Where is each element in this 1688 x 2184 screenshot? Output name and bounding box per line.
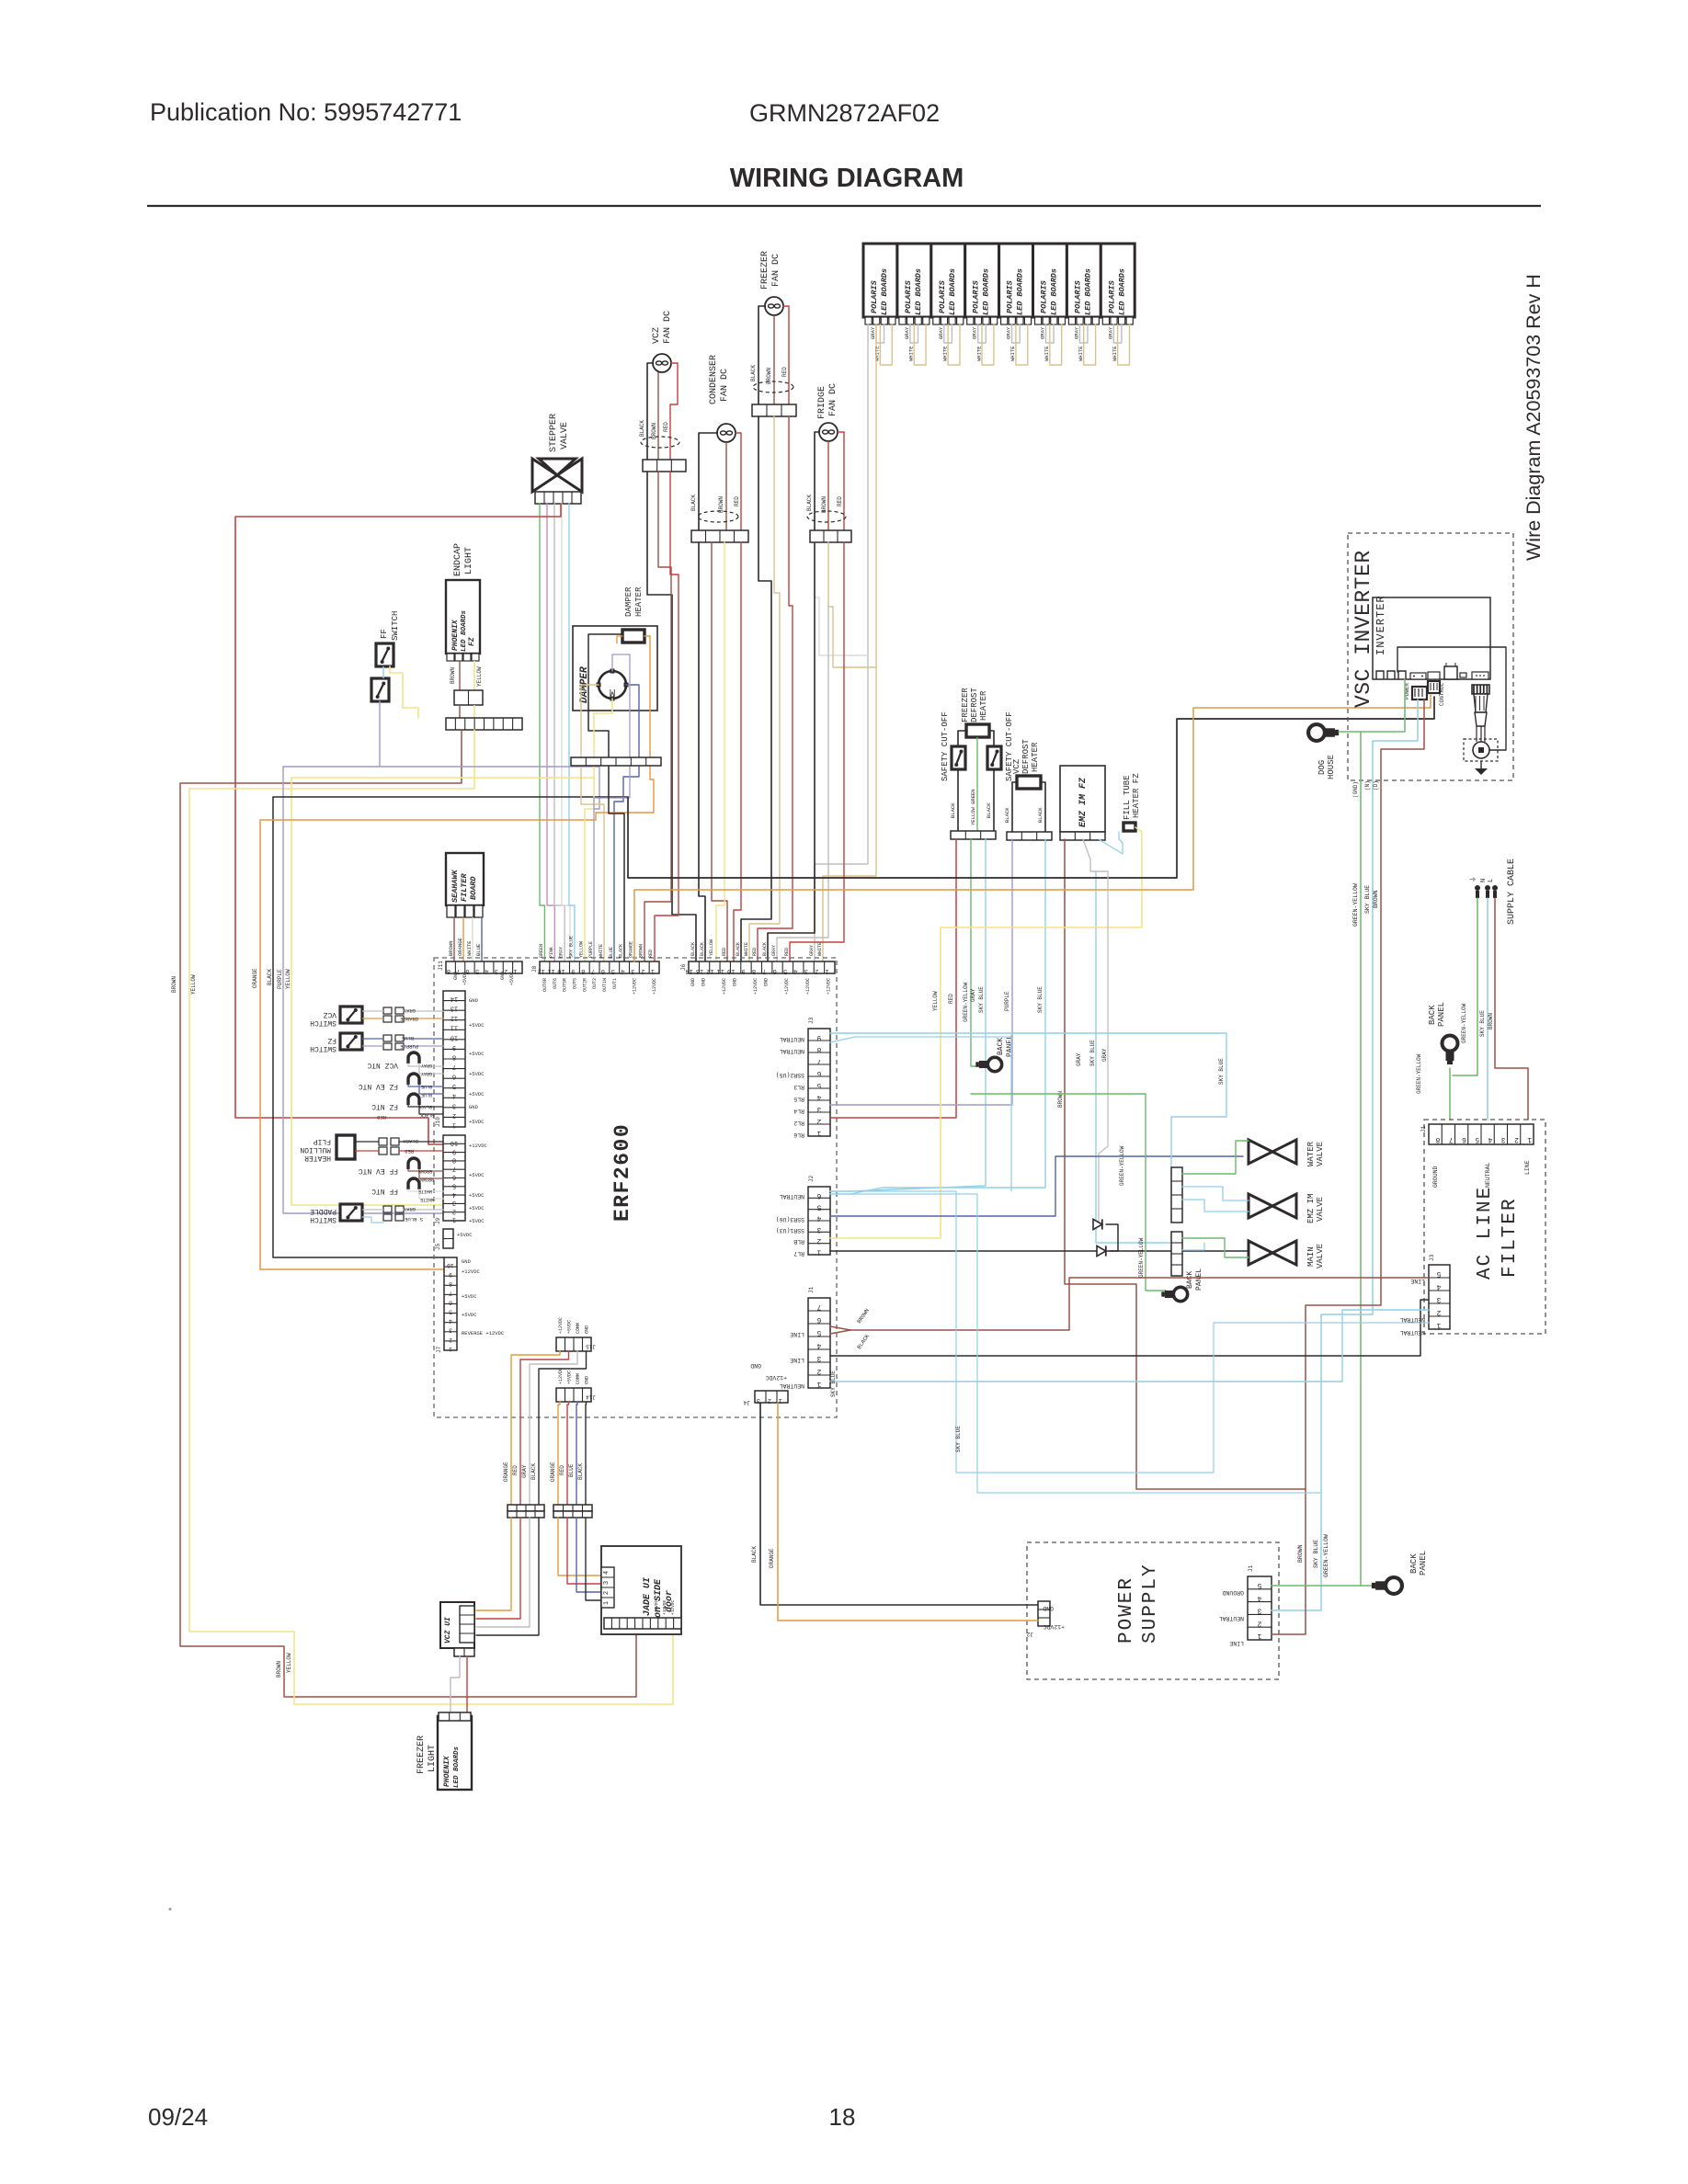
compressor motor <box>1464 739 1498 761</box>
svg-text:BROWN: BROWN <box>821 496 827 513</box>
svg-text:LINE: LINE <box>1410 1278 1425 1284</box>
svg-text:GRAY: GRAY <box>1073 326 1079 339</box>
svg-text:WHITE: WHITE <box>466 940 473 956</box>
svg-text:+5VDC: +5VDC <box>567 1320 573 1334</box>
svg-text:LINE: LINE <box>790 1331 804 1337</box>
svg-text:MAIN: MAIN <box>1306 1246 1316 1267</box>
svg-text:3: 3 <box>816 1354 821 1362</box>
svg-text:LED BOARDs: LED BOARDs <box>461 609 468 652</box>
svg-text:VCZ: VCZ <box>323 1010 336 1018</box>
svg-text:7: 7 <box>449 1290 452 1296</box>
polaris led board 5 <box>999 244 1033 317</box>
svg-text:2: 2 <box>603 1591 610 1595</box>
svg-text:FILTER: FILTER <box>1500 1197 1521 1278</box>
svg-text:PURPLE: PURPLE <box>277 969 283 989</box>
svg-text:NEUTRAL: NEUTRAL <box>780 1193 804 1200</box>
svg-text:BROWN: BROWN <box>418 1168 432 1174</box>
svg-text:OUT5: OUT5 <box>572 978 577 989</box>
connector J7 <box>444 1257 457 1350</box>
connector J6 <box>689 961 835 973</box>
svg-text:1: 1 <box>825 967 828 974</box>
connector J11 <box>446 961 522 973</box>
svg-text:FAN DC: FAN DC <box>828 383 838 416</box>
svg-text:J15: J15 <box>586 1343 596 1349</box>
condenser fan connector <box>691 530 748 542</box>
svg-text:GRAY: GRAY <box>403 1206 416 1212</box>
svg-text:+12VDC: +12VDC <box>827 978 832 995</box>
svg-text:WHITE: WHITE <box>941 346 948 361</box>
svg-text:+12VDC: +12VDC <box>784 978 790 995</box>
svg-text:2: 2 <box>816 1367 821 1375</box>
svg-text:BLACK: BLACK <box>639 420 645 437</box>
svg-text:4: 4 <box>449 1318 452 1325</box>
svg-text:+5VDC: +5VDC <box>469 1205 485 1211</box>
svg-text:+12VDC: +12VDC <box>765 1374 787 1381</box>
wire gray loop <box>1046 324 1055 343</box>
svg-text:+5VDC: +5VDC <box>469 1172 485 1178</box>
svg-text:+5VDC: +5VDC <box>567 1371 573 1384</box>
inverter power connector <box>1412 687 1427 700</box>
svg-text:1: 1 <box>779 1396 782 1404</box>
back panel lug ps <box>1372 1577 1402 1594</box>
svg-text:NEUTRAL: NEUTRAL <box>1219 1615 1244 1621</box>
svg-text:6: 6 <box>816 1191 821 1200</box>
wire white loop <box>1084 324 1096 365</box>
svg-text:SUPPLY CABLE: SUPPLY CABLE <box>1507 859 1517 925</box>
svg-text:1: 1 <box>1527 1135 1532 1143</box>
svg-text:BLUE: BLUE <box>568 1463 575 1477</box>
svg-text:J2: J2 <box>808 1175 815 1182</box>
svg-text:L: L <box>1488 879 1495 882</box>
svg-text:BLACK: BLACK <box>690 495 697 511</box>
svg-text:GND: GND <box>585 1376 590 1384</box>
svg-text:SKY BLUE: SKY BLUE <box>830 1371 837 1397</box>
compressor loop wire <box>1397 647 1506 750</box>
svg-text:5: 5 <box>611 967 615 974</box>
svg-text:GND: GND <box>690 978 696 986</box>
svg-text:M: M <box>610 686 616 697</box>
svg-text:RL6: RL6 <box>793 1132 804 1138</box>
svg-text:OUT1: OUT1 <box>612 978 618 989</box>
svg-text:ORANGE: ORANGE <box>550 1462 556 1482</box>
svg-text:+12VDC: +12VDC <box>1043 1623 1065 1630</box>
stepper harness wires <box>540 504 544 961</box>
polaris drop wires <box>815 324 868 961</box>
svg-text:LED BOARDs: LED BOARDs <box>1117 268 1126 315</box>
svg-text:ERF2600: ERF2600 <box>610 1123 634 1222</box>
inline connector pair 2 <box>553 1505 592 1511</box>
svg-text:HOUSE: HOUSE <box>1327 755 1336 779</box>
svg-text:BLACK: BLACK <box>1037 807 1044 823</box>
svg-text:8: 8 <box>449 1280 452 1287</box>
svg-text:GREEN-YELLOW: GREEN-YELLOW <box>1138 1237 1145 1278</box>
svg-text:FLIP: FLIP <box>314 1137 331 1145</box>
svg-text:+12VDC: +12VDC <box>805 978 811 995</box>
svg-text:LINE: LINE <box>1229 1640 1244 1646</box>
damper internal wires <box>588 634 622 797</box>
svg-text:POLARIS: POLARIS <box>1073 279 1082 313</box>
svg-text:+5VDC: +5VDC <box>469 1091 485 1098</box>
svg-text:SKY BLUE: SKY BLUE <box>1218 1058 1225 1085</box>
svg-text:1: 1 <box>603 1601 610 1605</box>
svg-text:VALVE: VALVE <box>560 422 570 449</box>
svg-text:+5VDC: +5VDC <box>509 972 515 985</box>
svg-text:RL5: RL5 <box>793 1096 804 1102</box>
wire white loop <box>914 324 926 365</box>
svg-text:BACK: BACK <box>997 1038 1005 1055</box>
svg-text:HEATER: HEATER <box>979 690 988 721</box>
svg-text:RED: RED <box>559 1465 565 1475</box>
svg-text:3: 3 <box>495 967 498 974</box>
connector J5 <box>443 1229 453 1248</box>
svg-text:FZ EV NTC: FZ EV NTC <box>359 1082 398 1090</box>
svg-text:7: 7 <box>452 1063 456 1070</box>
svg-text:REVERSE +12VDC: REVERSE +12VDC <box>462 1330 505 1337</box>
svg-text:Wire Diagram A20593703 Rev H: Wire Diagram A20593703 Rev H <box>1523 274 1545 561</box>
svg-text:GRAY: GRAY <box>904 326 910 339</box>
wire gray loop <box>944 324 952 343</box>
svg-text:YELLOW: YELLOW <box>578 941 584 958</box>
svg-text:1: 1 <box>1436 1321 1441 1329</box>
svg-text:1: 1 <box>449 1346 452 1352</box>
wire gray loop <box>1079 324 1088 343</box>
svg-text:SSR2(U5): SSR2(U5) <box>776 1072 804 1078</box>
inverter inner box <box>1373 597 1490 679</box>
svg-text:BROWN: BROWN <box>1488 1013 1494 1029</box>
svg-text:FZ NTC: FZ NTC <box>371 1102 398 1110</box>
svg-text:CONDENSER: CONDENSER <box>709 355 719 404</box>
svg-text:BLACK: BLACK <box>986 802 992 818</box>
svg-text:WATER: WATER <box>1306 1141 1316 1166</box>
svg-text:S BLUE: S BLUE <box>404 1216 423 1223</box>
svg-text:10: 10 <box>727 967 735 974</box>
svg-text:6: 6 <box>601 967 605 974</box>
svg-text:12: 12 <box>451 1014 458 1021</box>
svg-text:5: 5 <box>783 967 787 974</box>
svg-text:J1: J1 <box>808 1286 815 1293</box>
svg-text:BROWN: BROWN <box>171 976 177 993</box>
svg-text:BLACK: BLACK <box>619 944 624 958</box>
svg-text:RED: RED <box>781 367 788 377</box>
svg-text:RL7: RL7 <box>793 1250 804 1257</box>
svg-text:PHOENIX: PHOENIX <box>443 1755 451 1787</box>
svg-text:PHOENIX: PHOENIX <box>451 619 460 651</box>
connector J1 <box>808 1298 830 1388</box>
svg-text:3: 3 <box>452 1101 456 1109</box>
svg-text:CONTROL: CONTROL <box>1439 682 1445 706</box>
svg-text:+12VDC: +12VDC <box>632 978 637 995</box>
svg-text:POLARIS: POLARIS <box>904 279 913 313</box>
dog house lug <box>1308 724 1339 741</box>
svg-text:9: 9 <box>449 1271 452 1278</box>
svg-text:BLUE: BLUE <box>475 943 482 956</box>
svg-text:1: 1 <box>816 1129 821 1137</box>
filter connector J3 <box>1429 1265 1450 1329</box>
polaris led board 6 <box>1033 244 1067 317</box>
wire white loop <box>880 324 892 365</box>
svg-text:POLARIS: POLARIS <box>972 279 981 313</box>
svg-text:FILTER: FILTER <box>460 872 469 902</box>
svg-text:VALVE: VALVE <box>1316 1142 1325 1166</box>
svg-text:RED: RED <box>663 422 669 432</box>
emz im fz <box>1060 766 1105 832</box>
damper motor <box>599 671 626 699</box>
svg-text:GRAY: GRAY <box>1040 326 1046 339</box>
svg-text:BLACK: BLACK <box>1004 807 1010 823</box>
stray dot <box>169 1908 172 1911</box>
svg-text:FREEZER: FREEZER <box>760 251 770 290</box>
emz connector <box>1060 832 1105 840</box>
svg-text:BACK: BACK <box>1428 1005 1437 1025</box>
svg-text:BLUE: BLUE <box>421 1084 432 1089</box>
svg-text:BROWN: BROWN <box>718 496 724 513</box>
svg-text:GREEN-YELLOW: GREEN-YELLOW <box>1461 1003 1467 1043</box>
svg-text:WHITE: WHITE <box>908 346 915 361</box>
svg-text:SKY BLUE: SKY BLUE <box>1037 986 1044 1013</box>
svg-text:BLACK: BLACK <box>420 1112 434 1118</box>
svg-text:+5VDC: +5VDC <box>469 1022 485 1029</box>
svg-text:BLUE: BLUE <box>609 947 614 958</box>
damper harness drops to J8 <box>585 778 594 961</box>
svg-text:GND: GND <box>750 1362 761 1369</box>
connector J14 <box>556 1388 591 1402</box>
svg-text:BLACK: BLACK <box>690 942 696 956</box>
svg-text:2: 2 <box>641 967 644 974</box>
j14 harness <box>558 1402 560 1505</box>
svg-text:4: 4 <box>603 1571 610 1575</box>
svg-text:6: 6 <box>816 1069 821 1077</box>
svg-text:BACK: BACK <box>1409 1553 1419 1574</box>
svg-text:⏚: ⏚ <box>1469 876 1477 882</box>
damper assembly box <box>573 626 657 711</box>
svg-text:1: 1 <box>816 1248 821 1257</box>
svg-text:(GND): (GND) <box>1352 781 1359 798</box>
back panel lug filter <box>1443 1036 1458 1065</box>
svg-text:SKY BLUE: SKY BLUE <box>1313 1540 1319 1568</box>
svg-text:8: 8 <box>816 1045 821 1053</box>
ac line filter box <box>1424 1120 1545 1334</box>
svg-text:FREEZER: FREEZER <box>961 688 970 722</box>
svg-text:2: 2 <box>452 1207 456 1214</box>
svg-text:9: 9 <box>816 1033 821 1041</box>
svg-text:2: 2 <box>449 1337 452 1343</box>
svg-text:SKY BLUE: SKY BLUE <box>1364 885 1371 914</box>
svg-text:14: 14 <box>451 995 458 1002</box>
svg-text:SWITCH: SWITCH <box>310 1044 336 1052</box>
polaris led board 1 <box>863 244 897 317</box>
svg-text:RED: RED <box>948 994 954 1004</box>
svg-text:GRAY: GRAY <box>1107 326 1113 339</box>
svg-text:WHITE: WHITE <box>420 1197 434 1202</box>
svg-text:10: 10 <box>557 967 565 974</box>
svg-text:WHITE: WHITE <box>744 942 749 956</box>
svg-text:14: 14 <box>686 967 693 974</box>
diode 2 <box>1097 1246 1106 1256</box>
valve wires <box>1182 1141 1249 1174</box>
svg-text:GND: GND <box>585 1325 590 1334</box>
svg-text:GROUND: GROUND <box>1222 1589 1244 1596</box>
back panel lug valves <box>1161 1287 1187 1301</box>
svg-text:GREEN-YELLOW: GREEN-YELLOW <box>963 982 969 1022</box>
mid harness wires <box>830 839 956 1118</box>
polaris led board 8 <box>1101 244 1135 317</box>
svg-text:FZ: FZ <box>468 637 476 646</box>
vcz ui to freezer light wires <box>451 1656 460 1712</box>
filter connector J1 <box>1429 1124 1534 1144</box>
svg-text:GREEN-YELLOW: GREEN-YELLOW <box>1352 883 1359 927</box>
emz im valve <box>1249 1194 1272 1218</box>
svg-text:J4: J4 <box>743 1399 750 1405</box>
svg-text:18: 18 <box>829 2103 856 2131</box>
jade ui box <box>601 1546 681 1634</box>
svg-text:BLACK: BLACK <box>806 495 813 511</box>
svg-text:8: 8 <box>581 967 585 974</box>
svg-text:12: 12 <box>538 967 545 974</box>
svg-text:ORANGE: ORANGE <box>503 1462 509 1482</box>
svg-text:GREEN: GREEN <box>539 944 544 958</box>
svg-text:RL4: RL4 <box>793 1108 804 1114</box>
svg-text:PANEL: PANEL <box>1006 1035 1014 1057</box>
svg-text:PANEL: PANEL <box>1437 1002 1446 1027</box>
svg-text:RED: RED <box>722 948 727 956</box>
svg-text:BLUE: BLUE <box>421 1092 432 1098</box>
svg-text:OUT2R: OUT2R <box>582 978 587 992</box>
wire white loop <box>1118 324 1130 365</box>
svg-text:POWER: POWER <box>1116 1576 1137 1644</box>
svg-text:BACK: BACK <box>1186 1271 1194 1289</box>
wires to jade ui <box>558 1518 614 1575</box>
svg-text:+5VDC: +5VDC <box>469 1119 485 1125</box>
svg-text:3: 3 <box>449 1327 452 1334</box>
svg-text:J7: J7 <box>436 1346 442 1353</box>
svg-text:+12VDC: +12VDC <box>722 978 727 995</box>
svg-text:BROWN: BROWN <box>1373 890 1379 908</box>
svg-text:SKY BLUE: SKY BLUE <box>978 986 985 1013</box>
vcz ui box <box>440 1602 474 1648</box>
svg-text:BROWN: BROWN <box>1297 1544 1304 1563</box>
svg-text:BLACK: BLACK <box>750 365 757 381</box>
svg-text:4: 4 <box>793 967 797 974</box>
svg-text:SWITCH: SWITCH <box>310 1018 336 1027</box>
svg-text:+5VDC: +5VDC <box>457 1232 473 1238</box>
seahawk filter board <box>446 853 484 905</box>
svg-text:WHITE: WHITE <box>1044 346 1050 361</box>
svg-text:GND: GND <box>469 997 479 1004</box>
svg-text:BROWN: BROWN <box>448 940 454 956</box>
svg-text:HEATER: HEATER <box>634 586 644 617</box>
connector J9 <box>443 1135 465 1221</box>
svg-text:J10: J10 <box>435 1117 441 1127</box>
wire gray loop <box>1113 324 1122 343</box>
svg-text:LINE: LINE <box>790 1357 804 1363</box>
compressor plug <box>1472 685 1489 694</box>
svg-text:BLACK: BLACK <box>762 942 768 956</box>
svg-text:4: 4 <box>816 1341 821 1349</box>
vcz defrost connector <box>1007 832 1052 840</box>
back panel lug mid <box>975 1057 1001 1071</box>
svg-text:DEFROST: DEFROST <box>1021 739 1031 774</box>
svg-text:6: 6 <box>773 967 777 974</box>
svg-text:BROWN: BROWN <box>638 944 644 958</box>
svg-text:LED BOARDs: LED BOARDs <box>982 268 991 315</box>
svg-text:4: 4 <box>452 1190 456 1198</box>
svg-text:8: 8 <box>452 1052 456 1060</box>
svg-text:J3: J3 <box>1429 1254 1435 1261</box>
svg-text:+12VDC: +12VDC <box>558 1368 564 1384</box>
svg-text:+5VDC: +5VDC <box>462 1293 477 1300</box>
svg-text:+5VDC: +5VDC <box>469 1051 485 1057</box>
svg-text:11: 11 <box>451 1024 458 1031</box>
svg-text:09/24: 09/24 <box>148 2103 208 2131</box>
svg-text:FAN DC: FAN DC <box>720 369 730 402</box>
svg-text:GRAY: GRAY <box>938 326 944 339</box>
svg-text:9: 9 <box>452 1043 456 1051</box>
svg-text:2: 2 <box>1257 1619 1261 1627</box>
j4 to ps wires <box>760 1403 1038 1605</box>
svg-text:+12VDC: +12VDC <box>558 1317 564 1334</box>
svg-text:3: 3 <box>603 1581 610 1585</box>
svg-text:4: 4 <box>452 1092 456 1099</box>
svg-text:AC LINE: AC LINE <box>1475 1186 1496 1280</box>
svg-text:2: 2 <box>1436 1308 1441 1316</box>
svg-text:YELLOW: YELLOW <box>286 1653 292 1673</box>
connector J8 <box>540 961 659 973</box>
svg-text:WHITE: WHITE <box>817 942 823 956</box>
polaris led board 7 <box>1066 244 1101 317</box>
svg-text:NEUTRAL: NEUTRAL <box>1400 1316 1425 1323</box>
ps wires <box>1272 1585 1361 1587</box>
svg-text:ORANGE: ORANGE <box>252 968 258 988</box>
svg-text:4: 4 <box>1436 1282 1441 1291</box>
svg-text:N: N <box>1480 879 1488 882</box>
valve connector strips <box>1171 1167 1182 1223</box>
svg-text:7: 7 <box>762 967 766 974</box>
svg-text:2: 2 <box>452 1111 456 1119</box>
svg-text:WHITE: WHITE <box>1078 346 1084 361</box>
main valve <box>1249 1241 1272 1265</box>
wires to vcz ui <box>476 1518 511 1610</box>
svg-text:GND: GND <box>732 978 737 986</box>
svg-text:GRAY: GRAY <box>1076 1052 1082 1066</box>
svg-text:FF EV NTC: FF EV NTC <box>359 1166 398 1175</box>
svg-text:6: 6 <box>1462 1135 1466 1143</box>
svg-text:8: 8 <box>452 1156 456 1164</box>
svg-text:FREEZER: FREEZER <box>416 1735 427 1774</box>
svg-text:12: 12 <box>706 967 713 974</box>
svg-text:WHITE: WHITE <box>599 944 604 958</box>
svg-text:HEATER FZ: HEATER FZ <box>1132 773 1141 818</box>
svg-text:YELLOW: YELLOW <box>932 991 939 1011</box>
wire white loop <box>982 324 994 365</box>
svg-text:J11: J11 <box>438 961 444 971</box>
svg-text:PURPLE: PURPLE <box>588 941 594 958</box>
svg-text:RL2: RL2 <box>793 1120 804 1126</box>
svg-text:POLARIS: POLARIS <box>1006 279 1015 313</box>
svg-text:YELLOW: YELLOW <box>190 974 197 995</box>
svg-text:1: 1 <box>1257 1632 1261 1640</box>
svg-text:6: 6 <box>452 1173 456 1180</box>
svg-text:RED: RED <box>734 496 740 506</box>
inverter gnd wires <box>1339 679 1405 732</box>
svg-text:GRAY: GRAY <box>1101 1048 1108 1062</box>
svg-text:LED BOARDs: LED BOARDs <box>948 268 957 315</box>
fridge fan connector <box>810 530 851 542</box>
svg-text:HEATER: HEATER <box>1031 742 1040 772</box>
svg-text:YELLOW: YELLOW <box>709 939 714 956</box>
wire white loop <box>1050 324 1062 365</box>
svg-text:YELLOW: YELLOW <box>476 666 483 687</box>
vcz ui bottom connector <box>454 1648 474 1656</box>
